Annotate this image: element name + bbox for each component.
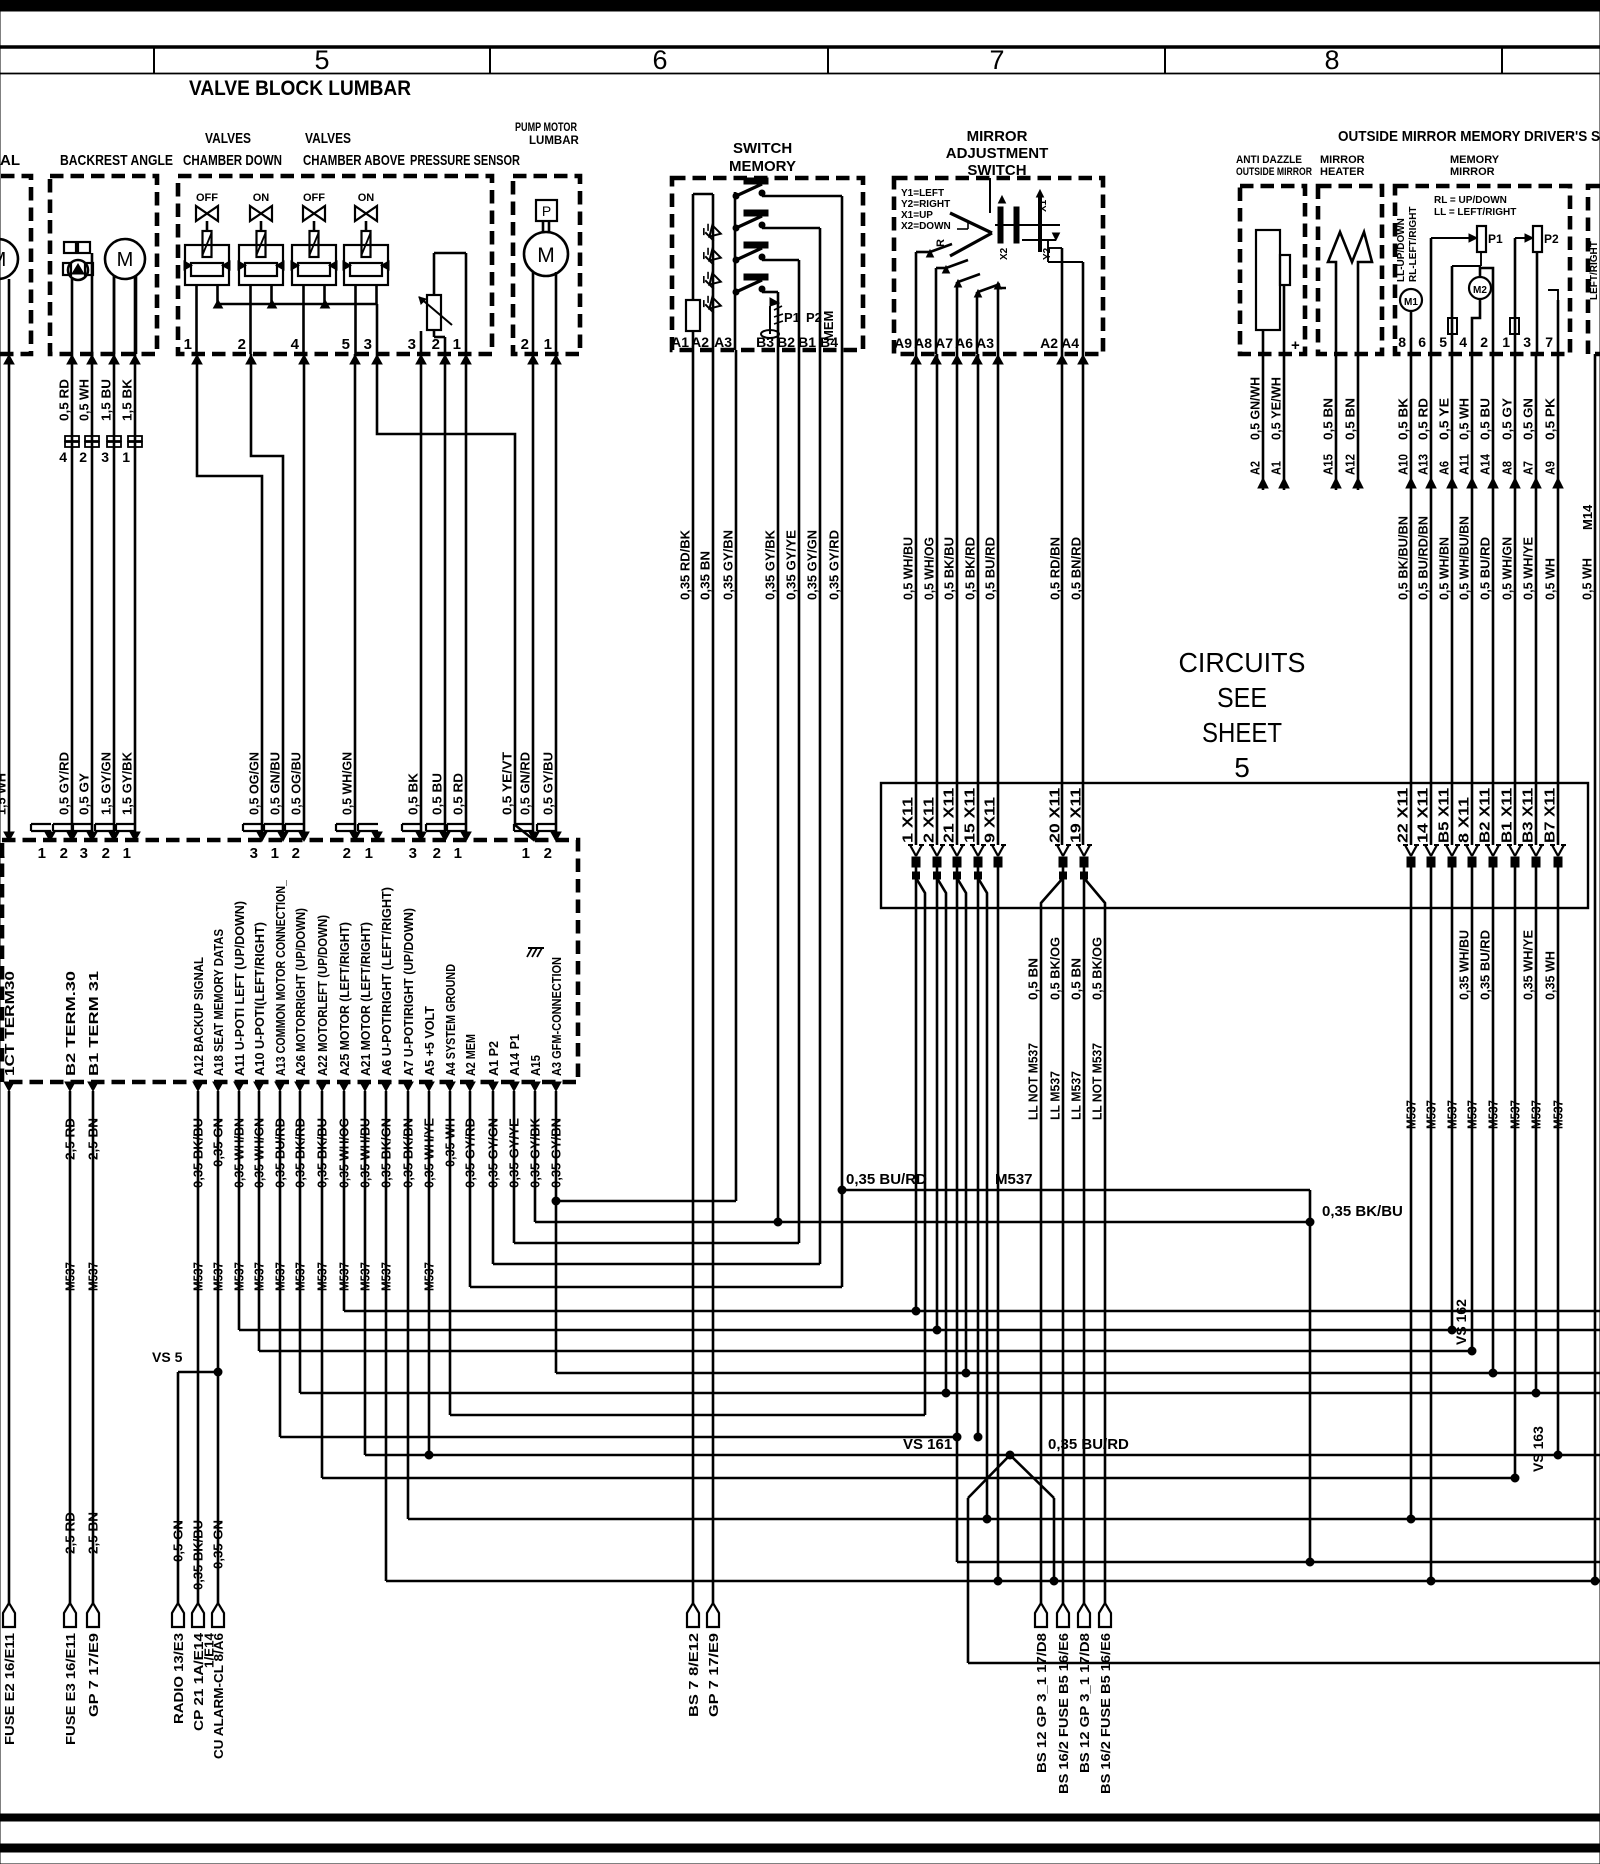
svg-text:0,5 RD: 0,5 RD [1416,398,1431,440]
svg-text:0,5 BU/RD: 0,5 BU/RD [983,537,998,600]
svg-text:M: M [117,249,134,271]
X11 connector box [881,783,1588,908]
svg-text:2: 2 [521,336,529,353]
svg-text:A22 MOTORLEFT (UP/DOWN): A22 MOTORLEFT (UP/DOWN) [315,915,330,1076]
svg-text:0,5 BK/OG: 0,5 BK/OG [1090,937,1105,1000]
svg-text:A6: A6 [1437,461,1452,475]
svg-text:0,5 WH: 0,5 WH [77,379,92,421]
svg-text:Y2=RIGHT: Y2=RIGHT [901,199,950,210]
svg-text:0,5 RD/BN: 0,5 RD/BN [1048,537,1063,600]
bottom connector arrows and reference labels [3,1603,15,1627]
svg-text:VS 5: VS 5 [152,1349,183,1365]
bottom border bars [0,1814,1600,1821]
svg-text:ON: ON [358,192,375,204]
component box C VALVES + PRESSURE SENSOR [178,176,492,354]
svg-text:2: 2 [1480,334,1488,350]
svg-text:SWITCH: SWITCH [733,140,792,157]
svg-text:2: 2 [432,336,440,353]
control unit box [2,840,578,1082]
svg-text:0,5 GN: 0,5 GN [1521,398,1536,440]
svg-text:A3: A3 [976,335,994,351]
svg-text:M537: M537 [1486,1100,1501,1129]
svg-text:A1 P2: A1 P2 [486,1041,501,1076]
svg-text:B2 TERM.30: B2 TERM.30 [63,971,78,1076]
svg-text:M537: M537 [1445,1100,1460,1129]
svg-text:6: 6 [1418,334,1426,350]
svg-text:0,35 BU/RD: 0,35 BU/RD [1048,1436,1129,1453]
A5 wire ends on A21 line [428,1091,431,1455]
wires backrest group down to control unit [8,354,11,840]
svg-text:8 X11: 8 X11 [1457,797,1473,843]
svg-text:1,5 BU: 1,5 BU [99,379,114,421]
svg-text:OFF: OFF [303,192,325,204]
svg-text:5: 5 [1234,752,1250,783]
svg-text:0,5 GN/RD: 0,5 GN/RD [518,752,533,815]
svg-text:A1: A1 [1269,461,1284,475]
A3 wire with T at 1201 and lower corner 1373 [555,1091,558,1373]
svg-text:1: 1 [522,845,530,862]
svg-text:0,5 BN: 0,5 BN [1026,958,1041,1000]
svg-text:M537: M537 [1551,1100,1566,1129]
svg-text:0,5 WH/YE: 0,5 WH/YE [1521,537,1536,600]
valve common connection line [218,303,377,306]
svg-text:A3 GFM-CONNECTION: A3 GFM-CONNECTION [549,957,564,1076]
svg-text:LL = LEFT/RIGHT: LL = LEFT/RIGHT [1434,207,1516,218]
svg-text:9 X11: 9 X11 [983,797,999,843]
svg-text:0,5 GY/RD: 0,5 GY/RD [57,752,72,815]
svg-text:1: 1 [0,845,5,862]
svg-text:SEE: SEE [1217,682,1267,713]
svg-text:21 X11: 21 X11 [942,788,958,843]
svg-text:0,5 GY: 0,5 GY [77,773,92,815]
svg-text:4: 4 [59,449,67,465]
LED chain on A2 wire [712,194,715,350]
svg-text:ADJUSTMENT: ADJUSTMENT [946,145,1049,162]
svg-text:B1: B1 [798,334,816,350]
svg-text:ON: ON [253,192,270,204]
svg-text:0,5 BU: 0,5 BU [1478,398,1493,440]
svg-text:VALVE BLOCK LUMBAR: VALVE BLOCK LUMBAR [189,77,411,100]
svg-text:22 X11: 22 X11 [1396,788,1412,843]
svg-text:0,5 BK: 0,5 BK [406,772,421,815]
memory mirror wires down to X11 with pin labels [1410,354,1413,845]
svg-text:A13: A13 [1416,454,1431,475]
svg-text:A2: A2 [691,334,709,350]
svg-text:5: 5 [314,45,329,75]
svg-text:0,5 WH/BU: 0,5 WH/BU [901,537,916,600]
svg-text:A11: A11 [1457,454,1472,475]
svg-text:0,35 GY/GN: 0,35 GY/GN [805,530,820,600]
svg-text:15 X11: 15 X11 [963,788,979,843]
svg-text:X2=DOWN: X2=DOWN [901,221,951,232]
svg-text:OUTSIDE MIRROR: OUTSIDE MIRROR [1236,166,1312,178]
svg-text:A2 MEM: A2 MEM [463,1034,478,1076]
svg-text:B1 TERM 31: B1 TERM 31 [86,971,101,1076]
svg-text:0,5 GY: 0,5 GY [1500,398,1515,440]
svg-text:0,5 WH/BN: 0,5 WH/BN [1437,537,1452,600]
svg-text:0,5 BU: 0,5 BU [430,773,445,815]
svg-text:M537: M537 [995,1171,1033,1188]
svg-text:BS 12 GP 3_1 17/D8: BS 12 GP 3_1 17/D8 [1077,1633,1092,1773]
column scale row [0,73,1600,75]
svg-text:CHAMBER ABOVE: CHAMBER ABOVE [303,152,405,169]
svg-text:LL NOT M537: LL NOT M537 [1026,1043,1041,1120]
component box H MIRROR HEATER [1318,186,1382,354]
svg-text:0,5 WH/BU/BN: 0,5 WH/BU/BN [1457,516,1472,600]
svg-text:OFF: OFF [196,192,218,204]
svg-text:0,5 WH: 0,5 WH [1457,398,1472,440]
svg-text:AL: AL [0,152,20,169]
svg-text:0,5 BK/BU/BN: 0,5 BK/BU/BN [1396,516,1411,600]
wires mirror adjustment switch to X11 [915,354,918,845]
svg-text:X1: X1 [1038,199,1049,212]
svg-text:1 X11: 1 X11 [901,797,917,843]
svg-text:7: 7 [1545,334,1553,350]
buzzer symbol on B3 [769,306,771,334]
svg-text:0,5 BK/RD: 0,5 BK/RD [963,537,978,600]
ground symbol at A15 [528,947,544,949]
svg-text:M537: M537 [1424,1100,1439,1129]
svg-text:LEFT/RIGHT: LEFT/RIGHT [1589,241,1600,300]
svg-text:2,5 RD: 2,5 RD [63,1512,78,1554]
svg-text:0,5 BN/RD: 0,5 BN/RD [1069,537,1084,600]
svg-text:P2: P2 [1544,232,1559,246]
svg-text:FUSE E3 16/E11: FUSE E3 16/E11 [63,1633,78,1745]
svg-text:P2: P2 [806,310,822,325]
A7 wire corner 1519 [407,1091,410,1519]
svg-text:0,5 BK/BU: 0,5 BK/BU [942,537,957,600]
svg-text:1: 1 [38,845,46,862]
motor M2 [1469,277,1491,299]
angle sensor in box B [64,242,76,253]
svg-text:A2: A2 [1040,335,1058,351]
top border bar [0,0,1600,11]
resistor on A1 wire [686,300,700,331]
svg-text:A12 BACKUP SIGNAL: A12 BACKUP SIGNAL [191,957,206,1076]
svg-text:0,5 BK: 0,5 BK [1396,397,1411,440]
A12 wire to CP 21 arrow [197,1091,200,1603]
poti P1 [1477,226,1486,252]
svg-text:A7: A7 [1521,461,1536,475]
svg-text:RL-LEFT/RIGHT: RL-LEFT/RIGHT [1408,206,1419,282]
component box J partial right edge [1588,186,1600,354]
svg-text:GP 7 17/E9: GP 7 17/E9 [706,1633,721,1717]
svg-text:B1 X11: B1 X11 [1500,788,1516,843]
svg-text:A12: A12 [1343,454,1358,475]
svg-text:A10: A10 [1396,454,1411,475]
staircase: control wires turning right [534,1091,537,1222]
svg-text:BACKREST ANGLE: BACKREST ANGLE [60,152,173,169]
svg-text:2: 2 [102,845,110,862]
svg-text:0,35 BU/RD: 0,35 BU/RD [1478,930,1493,1000]
switch bank [734,192,737,350]
component box A partial (left edge) [0,176,31,354]
svg-text:A13 COMMON MOTOR CONNECTION_: A13 COMMON MOTOR CONNECTION_ [273,879,288,1076]
cross switch details [989,178,991,213]
svg-text:A10 U-POTI(LEFT/RIGHT): A10 U-POTI(LEFT/RIGHT) [252,922,267,1076]
svg-text:0,35 GY/BK: 0,35 GY/BK [763,529,778,600]
svg-text:LL NOT M537: LL NOT M537 [1090,1043,1105,1120]
svg-text:0,35 BN: 0,35 BN [698,551,713,600]
svg-text:OUTSIDE MIRROR MEMORY DRIVER'S: OUTSIDE MIRROR MEMORY DRIVER'S S [1338,128,1600,145]
motor M in box A [0,239,18,279]
svg-text:B2: B2 [777,334,795,350]
switch memory wires down [692,350,695,1603]
svg-text:MIRROR: MIRROR [967,128,1028,145]
svg-text:VS 163: VS 163 [1530,1426,1546,1472]
component box E SWITCH MEMORY [672,178,863,350]
svg-text:0,5 WH/OG: 0,5 WH/OG [922,537,937,600]
svg-text:0,5 WH: 0,5 WH [1580,558,1595,600]
svg-text:8: 8 [1324,45,1339,75]
frame line [0,45,1600,48]
X11 right group wires through box [1410,867,1413,908]
svg-text:0,5 YE/WH: 0,5 YE/WH [1269,377,1284,440]
svg-text:BS 16/2 FUSE B5 16/E6: BS 16/2 FUSE B5 16/E6 [1056,1633,1071,1794]
X11 left group wires below box ending at staircase lines [915,908,918,1311]
svg-text:VALVES: VALVES [205,130,251,147]
component box D PUMP MOTOR LUMBAR [513,176,580,354]
svg-text:A6 U-POTIRIGHT (LEFT/RIGHT): A6 U-POTIRIGHT (LEFT/RIGHT) [379,887,394,1076]
X11 left group diagonals and dots [915,867,918,908]
svg-text:Y1=LEFT: Y1=LEFT [901,188,944,199]
svg-text:0,5 RD: 0,5 RD [451,773,466,815]
svg-text:A5 +5 VOLT: A5 +5 VOLT [422,1006,437,1076]
svg-text:B3: B3 [756,334,774,350]
svg-text:ANTI DAZZLE: ANTI DAZZLE [1236,154,1302,166]
contact arrows to pins [930,244,952,252]
svg-text:0,35 WH: 0,35 WH [1543,951,1558,1000]
anti dazzle + heater wires with pin arrows [1262,354,1265,490]
svg-text:B7 X11: B7 X11 [1543,788,1559,843]
svg-text:0,35 BK/BU: 0,35 BK/BU [1322,1203,1403,1220]
svg-text:A3: A3 [714,334,732,350]
svg-text:2: 2 [60,845,68,862]
svg-text:0,5 OG/BU: 0,5 OG/BU [289,752,304,815]
svg-text:7: 7 [989,45,1004,75]
svg-text:3: 3 [1523,334,1531,350]
svg-text:2: 2 [343,845,351,862]
svg-text:0,35 GY/BN: 0,35 GY/BN [721,530,736,600]
svg-text:3: 3 [409,845,417,862]
svg-text:M: M [0,249,6,271]
component box G ANTI DAZZLE [1240,186,1305,354]
control unit bottom pins with labels [4,1082,14,1091]
svg-text:1,5 GY/BK: 1,5 GY/BK [120,751,135,815]
svg-text:1CT TERM30: 1CT TERM30 [2,971,17,1076]
svg-text:1: 1 [454,845,462,862]
svg-text:P1: P1 [784,310,800,325]
svg-text:MIRROR: MIRROR [1320,154,1365,166]
svg-text:A9: A9 [894,335,912,351]
connector brackets above control unit [31,823,51,825]
svg-text:0,5 WH/GN: 0,5 WH/GN [1500,537,1515,600]
svg-text:1: 1 [123,845,131,862]
svg-text:A14: A14 [1478,453,1493,475]
svg-text:0,5 GN/BU: 0,5 GN/BU [268,752,283,815]
motor M in box B [105,239,145,279]
svg-text:A15: A15 [1321,454,1336,475]
svg-text:0,5 BU/RD: 0,5 BU/RD [1478,537,1493,600]
svg-text:BS 16/2 FUSE B5 16/E6: BS 16/2 FUSE B5 16/E6 [1098,1633,1113,1794]
svg-text:MEMORY: MEMORY [729,158,796,175]
component box F MIRROR ADJUSTMENT SWITCH [894,178,1103,354]
svg-text:2 X11: 2 X11 [922,797,938,843]
svg-text:X2: X2 [999,247,1010,260]
svg-text:A14 P1: A14 P1 [507,1034,522,1076]
svg-text:1: 1 [1502,334,1510,350]
svg-text:LL M537: LL M537 [1069,1071,1084,1120]
left long wires to bottom arrows [8,1091,11,1603]
svg-text:A1: A1 [671,334,689,350]
svg-text:A21 MOTOR (LEFT/RIGHT): A21 MOTOR (LEFT/RIGHT) [358,922,373,1076]
svg-text:0,5 OG/GN: 0,5 OG/GN [247,752,262,815]
svg-text:LL-UP/DOWN: LL-UP/DOWN [1396,218,1407,282]
svg-text:2: 2 [433,845,441,862]
svg-text:BS 12 GP 3_1 17/D8: BS 12 GP 3_1 17/D8 [1034,1633,1049,1773]
svg-text:4: 4 [291,336,300,353]
valve wires to control unit [197,354,262,840]
control unit top pin arrows and numbers [4,832,14,841]
svg-text:A15: A15 [528,1055,543,1076]
svg-text:2: 2 [238,336,246,353]
right side links in box F [1061,248,1064,354]
svg-text:A2: A2 [1248,461,1263,475]
svg-text:CIRCUITS: CIRCUITS [1179,647,1306,678]
svg-text:5: 5 [342,336,350,353]
svg-text:A7 U-POTIRIGHT (UP/DOWN): A7 U-POTIRIGHT (UP/DOWN) [401,908,416,1076]
svg-text:MEMORY: MEMORY [1450,154,1500,166]
svg-text:PRESSURE SENSOR: PRESSURE SENSOR [410,152,520,169]
svg-text:0,35 GY/RD: 0,35 GY/RD [827,530,842,600]
svg-text:1: 1 [184,336,192,353]
svg-text:2: 2 [292,845,300,862]
svg-text:8: 8 [1398,334,1406,350]
svg-text:A9: A9 [1543,461,1558,475]
svg-text:A26 MOTORRIGHT (UP/DOWN): A26 MOTORRIGHT (UP/DOWN) [293,908,308,1076]
svg-text:RADIO 13/E3: RADIO 13/E3 [171,1633,186,1724]
svg-text:1: 1 [365,845,373,862]
svg-text:3: 3 [80,845,88,862]
svg-text:VS 162: VS 162 [1453,1299,1469,1345]
poti P2 [1533,226,1542,252]
svg-text:B5 X11: B5 X11 [1437,788,1453,843]
svg-text:0,5 WH: 0,5 WH [1543,558,1558,600]
svg-text:2: 2 [79,449,87,465]
svg-text:A7: A7 [935,335,953,351]
svg-text:MIRROR: MIRROR [1450,166,1495,178]
svg-text:LUMBAR: LUMBAR [529,135,580,147]
svg-text:SHEET: SHEET [1202,717,1282,748]
svg-text:A8: A8 [1500,461,1515,475]
svg-text:2,5 BN: 2,5 BN [86,1512,101,1554]
svg-text:3: 3 [408,336,416,353]
X11 20/19 diagonals [1062,867,1065,908]
svg-text:1: 1 [271,845,279,862]
svg-text:1: 1 [453,336,461,353]
svg-text:LL M537: LL M537 [1048,1071,1063,1120]
svg-text:A4 SYSTEM GROUND: A4 SYSTEM GROUND [443,964,458,1076]
svg-text:M537: M537 [1529,1100,1544,1129]
svg-text:A25 MOTOR (LEFT/RIGHT): A25 MOTOR (LEFT/RIGHT) [337,922,352,1076]
svg-text:M537: M537 [1508,1100,1523,1129]
svg-text:P1: P1 [1488,232,1503,246]
A10 wire corner 1351 to VS 162 [258,1091,261,1351]
motor M1 [1400,289,1422,311]
svg-text:0,5 BU/RD/BN: 0,5 BU/RD/BN [1416,516,1431,600]
svg-text:6: 6 [652,45,667,75]
svg-text:3: 3 [101,449,109,465]
svg-text:+: + [1291,337,1300,354]
svg-text:0,5 GN/WH: 0,5 GN/WH [1248,377,1263,440]
pump wires straight [532,354,535,840]
svg-text:M537: M537 [1465,1100,1480,1129]
svg-text:1,5 WH: 1,5 WH [0,773,9,815]
svg-text:5: 5 [1439,334,1447,350]
pressure sensor symbol [427,295,441,330]
svg-text:A6: A6 [955,335,973,351]
component box B BACKREST ANGLE [50,176,157,354]
svg-text:0,35 WH/YE: 0,35 WH/YE [1521,930,1536,1000]
svg-text:0,35 WH/BU: 0,35 WH/BU [1457,930,1472,1000]
svg-text:BS 7 8/E12: BS 7 8/E12 [686,1633,701,1717]
svg-text:0,5 BK/OG: 0,5 BK/OG [1048,937,1063,1000]
svg-text:0,5 RD: 0,5 RD [57,379,72,421]
svg-text:4: 4 [1459,334,1467,350]
svg-text:FUSE E2 16/E11: FUSE E2 16/E11 [2,1633,17,1745]
svg-text:A11 U-POTI LEFT (UP/DOWN): A11 U-POTI LEFT (UP/DOWN) [232,901,247,1076]
svg-text:X1=UP: X1=UP [901,210,933,221]
svg-text:0,5 BN: 0,5 BN [1321,398,1336,440]
20/19 X11 wires to bottom arrows [1040,908,1043,1603]
svg-text:PUMP MOTOR: PUMP MOTOR [515,122,578,134]
svg-text:M537: M537 [1404,1100,1419,1129]
svg-text:P: P [542,203,551,219]
svg-text:GP 7 17/E9: GP 7 17/E9 [86,1633,101,1717]
svg-text:0,35 BK/BU: 0,35 BK/BU [191,1520,206,1590]
svg-text:M1: M1 [1404,297,1418,308]
svg-text:M2: M2 [1473,285,1487,296]
rocker V symbol [950,213,992,233]
svg-text:CHAMBER DOWN: CHAMBER DOWN [183,152,282,169]
svg-text:A8: A8 [914,335,932,351]
svg-text:M14: M14 [1580,504,1595,530]
svg-text:RL = UP/DOWN: RL = UP/DOWN [1434,195,1507,206]
svg-text:B2 X11: B2 X11 [1478,788,1494,843]
svg-text:0,5 PK: 0,5 PK [1543,397,1558,440]
svg-text:1,5 BK: 1,5 BK [120,378,135,421]
A18 wire with VS 5 junction [217,1091,220,1603]
svg-text:14 X11: 14 X11 [1416,788,1432,843]
VS 161 junction and split on A21 line [1006,1451,1014,1459]
svg-text:0,5 YE: 0,5 YE [1437,398,1452,440]
svg-text:1,5 GY/GN: 1,5 GY/GN [99,752,114,815]
svg-text:3: 3 [364,336,372,353]
svg-text:1/E14: 1/E14 [202,1632,217,1668]
svg-text:0,5 WH/GN: 0,5 WH/GN [340,752,355,815]
svg-text:0,35 GY/YE: 0,35 GY/YE [784,530,799,600]
svg-text:1: 1 [122,449,130,465]
svg-text:3: 3 [250,845,258,862]
svg-text:M: M [537,244,555,267]
svg-text:A4: A4 [1061,335,1079,351]
svg-text:0,35 GN: 0,35 GN [211,1520,226,1569]
svg-text:0,5 GY/BU: 0,5 GY/BU [541,752,556,815]
svg-text:A18 SEAT MEMORY DATAS: A18 SEAT MEMORY DATAS [211,929,226,1076]
svg-text:0,5 BN: 0,5 BN [1343,398,1358,440]
svg-text:VS 161: VS 161 [903,1436,952,1453]
svg-text:0,35 RD/BK: 0,35 RD/BK [678,529,693,600]
